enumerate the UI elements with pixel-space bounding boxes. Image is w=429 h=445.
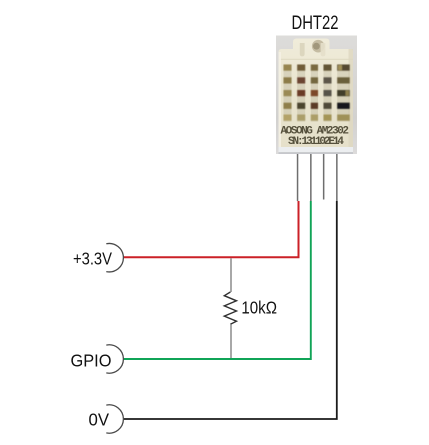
terminal arc GPIO <box>106 345 123 373</box>
terminal arc +3.3V <box>106 244 123 272</box>
row 2 <box>284 77 292 83</box>
svg-text:10kΩ: 10kΩ <box>241 298 277 318</box>
row 5 <box>284 115 292 121</box>
svg-text:GPIO: GPIO <box>71 350 112 370</box>
pin 2 <box>310 154 312 201</box>
row 3 <box>284 90 292 96</box>
sensor U1 DHT22 body <box>279 39 354 154</box>
sensor bottom strip <box>279 147 354 152</box>
sensor lid seam <box>279 58 354 61</box>
pin 1 <box>297 154 299 201</box>
pin 4 <box>336 154 338 201</box>
row 1 <box>284 65 292 71</box>
sensor right edge shade <box>349 49 354 154</box>
terminal arc 0V <box>106 405 123 433</box>
wire 0V black <box>123 201 337 419</box>
sensor top groove left <box>300 43 305 56</box>
pin 3 <box>323 154 325 200</box>
svg-text:DHT22: DHT22 <box>292 12 339 34</box>
sensor left edge highlight <box>279 52 282 154</box>
svg-text:+3.3V: +3.3V <box>73 249 112 269</box>
sensor mounting hole <box>312 40 325 53</box>
resistor R1 bottom lead wire <box>230 324 232 358</box>
sensor U1 DHT22 photo background <box>276 36 357 155</box>
wire +3.3V red <box>123 201 299 257</box>
sensor bottom edge <box>279 152 354 153</box>
resistor R1 zigzag <box>224 292 236 324</box>
sensor top groove right <box>321 43 326 56</box>
resistor R1 top lead wire <box>230 258 232 292</box>
sensor vent holes column shadows <box>284 65 350 122</box>
wire GPIO green <box>123 201 311 359</box>
row 4 <box>284 103 292 109</box>
svg-text:SN:131102E14: SN:131102E14 <box>288 136 344 148</box>
svg-text:0V: 0V <box>89 409 110 429</box>
sensor vent holes grid <box>284 65 350 121</box>
